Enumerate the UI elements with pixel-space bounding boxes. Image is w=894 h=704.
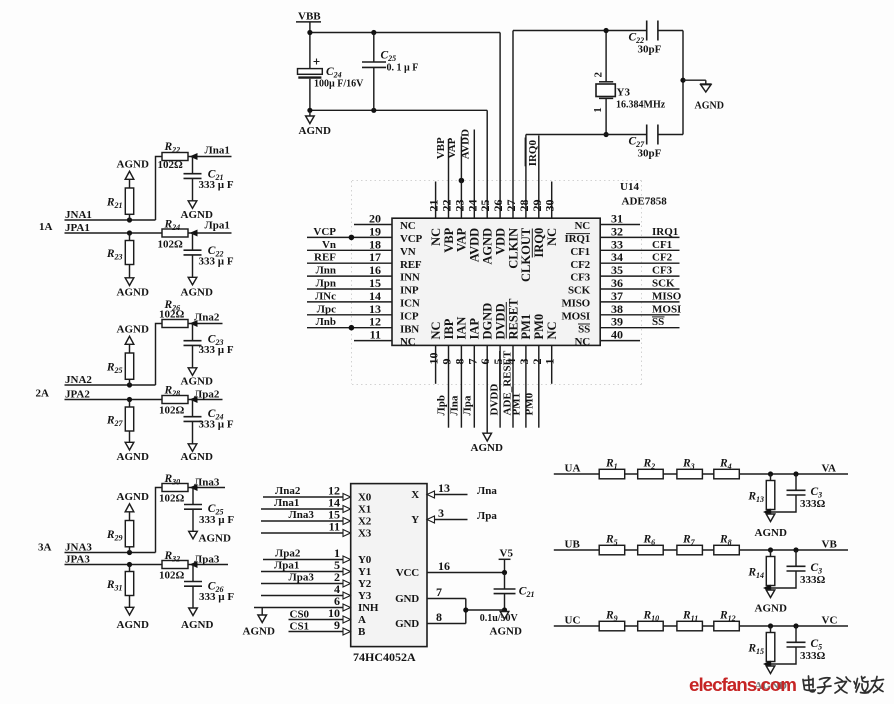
svg-text:2: 2 <box>593 72 605 78</box>
svg-text:GND: GND <box>395 618 419 630</box>
pin 33 CF1 <box>570 237 679 258</box>
svg-text:34: 34 <box>611 250 623 264</box>
pin X0 12 <box>263 484 372 504</box>
svg-text:3: 3 <box>438 506 444 520</box>
svg-text:PM0: PM0 <box>532 314 546 340</box>
svg-text:Лpa2: Лpa2 <box>194 388 220 400</box>
svg-text:100µ F/16V: 100µ F/16V <box>314 79 364 90</box>
svg-text:Лpa2: Лpa2 <box>275 548 301 560</box>
wire JNA3 <box>65 488 163 553</box>
resistor R13 <box>747 474 774 514</box>
svg-text:11: 11 <box>370 328 381 342</box>
resistor R4 <box>714 458 740 479</box>
capacitor C22 30pF <box>629 21 684 56</box>
pin 9 IBP <box>436 318 456 427</box>
pin 26 VDD <box>491 33 507 255</box>
svg-text:7: 7 <box>436 585 442 599</box>
svg-text:AVDD: AVDD <box>460 129 472 159</box>
pin 27 CLKIN <box>504 31 520 269</box>
svg-text:Y3: Y3 <box>617 87 631 99</box>
svg-text:Лpa1: Лpa1 <box>205 220 230 232</box>
svg-text:VBB: VBB <box>298 11 321 23</box>
node JNA2-R25 junction <box>127 382 132 387</box>
node UB-C3 junction <box>793 547 798 552</box>
svg-text:JPA1: JPA1 <box>65 222 90 234</box>
node Jpa3 junction arrow <box>190 561 198 568</box>
svg-text:22: 22 <box>440 200 454 212</box>
svg-text:Vn: Vn <box>322 239 336 251</box>
svg-text:IAN: IAN <box>455 317 469 340</box>
node R13-C3a junction arrow <box>763 509 771 516</box>
svg-text:INP: INP <box>400 285 419 297</box>
resistor R28 102ohm <box>159 385 188 417</box>
pin 34 CF2 <box>570 250 679 271</box>
pin 14 ICN <box>307 289 420 310</box>
resistor R29 <box>106 512 134 553</box>
wire UC line <box>554 625 848 627</box>
wire Jpa1 <box>188 232 232 234</box>
svg-text:24: 24 <box>465 200 479 212</box>
svg-text:NC: NC <box>429 228 443 246</box>
svg-text:V5: V5 <box>500 548 514 560</box>
svg-text:21: 21 <box>427 200 441 212</box>
svg-text:AGND: AGND <box>181 619 213 631</box>
ground AGND below C23 <box>181 368 213 388</box>
wire AGND rail to AGND pin25 <box>310 109 487 111</box>
node crystal-AGND junction <box>680 78 685 83</box>
svg-text:6: 6 <box>478 359 492 365</box>
svg-text:1: 1 <box>543 359 557 365</box>
svg-text:B: B <box>358 626 366 638</box>
svg-text:NC: NC <box>400 336 416 348</box>
svg-text:AGND: AGND <box>299 125 331 137</box>
resistor R14 <box>747 550 774 590</box>
svg-text:16: 16 <box>438 559 450 573</box>
pin 25 AGND <box>478 110 494 264</box>
resistor R3 <box>677 458 703 479</box>
node VBB-C25 junction <box>371 30 376 35</box>
pin 17 REF <box>307 250 422 271</box>
svg-text:AGND: AGND <box>117 287 149 299</box>
svg-text:Y3: Y3 <box>358 590 372 602</box>
svg-text:elecfans.com: elecfans.com <box>689 674 796 695</box>
node UB-R14 junction <box>768 547 773 552</box>
resistor R27 <box>106 400 134 443</box>
svg-text:JNA3: JNA3 <box>65 541 92 553</box>
svg-text:SS: SS <box>578 323 590 335</box>
svg-text:Лna1: Лna1 <box>205 144 230 156</box>
pin 20 NC <box>354 212 416 233</box>
wire Jna3 <box>188 487 225 489</box>
svg-text:CF1: CF1 <box>570 246 590 258</box>
power symbol VBB <box>296 11 321 69</box>
pin 28 CLKOUT <box>517 135 533 282</box>
capacitor C3a 333ohm <box>771 474 826 512</box>
pin A 10 CS0 <box>289 606 367 626</box>
pin 8 IAN <box>448 317 468 428</box>
svg-text:Лpa: Лpa <box>461 395 473 415</box>
svg-text:JPA3: JPA3 <box>65 553 90 565</box>
resistor R11 <box>677 610 703 631</box>
svg-text:333 µ F: 333 µ F <box>199 256 234 268</box>
svg-text:DVDD: DVDD <box>489 384 501 416</box>
capacitor C22 333uF <box>184 233 234 277</box>
pin 29 IRQ0 <box>525 136 546 258</box>
pin Y 3 output <box>411 506 497 526</box>
svg-text:1: 1 <box>592 107 604 113</box>
resistor R12 <box>714 610 740 631</box>
ground AGND under pin6 <box>471 433 503 454</box>
svg-text:333 µ F: 333 µ F <box>199 419 234 431</box>
svg-text:Y: Y <box>411 514 419 526</box>
svg-text:Лpc: Лpc <box>317 303 336 315</box>
svg-text:102Ω: 102Ω <box>159 308 185 320</box>
svg-text:VAP: VAP <box>446 137 458 158</box>
svg-text:NC: NC <box>575 336 591 348</box>
pin X2 15 <box>261 508 372 528</box>
svg-text:UA: UA <box>565 463 581 475</box>
node UC-C5 junction <box>793 623 798 628</box>
node rail-C24 junction <box>307 108 312 113</box>
svg-text:8: 8 <box>436 610 442 624</box>
pin 40 NC right <box>575 328 641 349</box>
node Jpa1 junction arrow <box>190 230 198 237</box>
svg-text:Лna3: Лna3 <box>289 509 315 521</box>
svg-text:VB: VB <box>822 539 838 551</box>
node Jna2 junction arrow <box>190 320 198 327</box>
wire JNA1 <box>65 157 163 221</box>
node C21b bottom junction <box>502 607 507 612</box>
node R14-C3b junction arrow <box>763 585 771 592</box>
resistor R10 <box>638 610 664 631</box>
svg-text:CF3: CF3 <box>570 272 590 284</box>
svg-text:ЛNc: ЛNc <box>315 290 336 302</box>
wire Jna2 <box>188 323 223 325</box>
svg-text:Y0: Y0 <box>358 554 372 566</box>
svg-text:38: 38 <box>611 302 623 316</box>
pin Y0 1 <box>263 546 372 566</box>
wire GND tie <box>466 599 505 624</box>
svg-text:MISO: MISO <box>652 290 682 302</box>
node UA-R13 junction <box>768 471 773 476</box>
svg-text:37: 37 <box>611 289 623 303</box>
wire JPA2 <box>65 399 163 401</box>
svg-text:PM1: PM1 <box>519 314 533 340</box>
svg-text:VCP: VCP <box>400 233 422 245</box>
node UA-C3 junction <box>793 471 798 476</box>
svg-text:IRQ0: IRQ0 <box>532 228 546 258</box>
svg-text:35: 35 <box>611 263 623 277</box>
capacitor C24b 333uF <box>184 400 234 444</box>
svg-text:Лna: Лna <box>477 485 497 497</box>
svg-text:Y1: Y1 <box>358 566 371 578</box>
svg-text:X0: X0 <box>358 492 372 504</box>
pin 37 MISO <box>561 289 681 310</box>
svg-text:CF2: CF2 <box>570 259 590 271</box>
wire to AGND <box>683 80 706 84</box>
svg-text:102Ω: 102Ω <box>158 239 184 251</box>
logo chinese characters 电子发烧友 <box>803 676 884 693</box>
node Jpa2 junction arrow <box>190 396 198 403</box>
svg-text:9: 9 <box>440 359 454 365</box>
op-amp U2 74HC4052A body <box>351 484 427 647</box>
svg-text:18: 18 <box>369 237 381 251</box>
pin B 9 CS1 <box>289 618 367 638</box>
svg-text:JNA1: JNA1 <box>65 209 92 221</box>
svg-text:Лna: Лna <box>448 395 460 415</box>
pin 10 NC bottom <box>427 321 443 383</box>
pin 4 RESET <box>500 298 521 428</box>
ground AGND below C21b <box>490 612 522 638</box>
svg-text:X3: X3 <box>358 528 372 540</box>
svg-text:SCK: SCK <box>652 278 675 290</box>
svg-text:Y2: Y2 <box>358 578 372 590</box>
svg-text:Лna3: Лna3 <box>194 477 220 489</box>
resistor R8 <box>714 534 740 555</box>
svg-text:102Ω: 102Ω <box>159 405 185 417</box>
svg-text:29: 29 <box>530 200 544 212</box>
node JNA1-R21 junction <box>127 217 132 222</box>
svg-text:SCK: SCK <box>568 285 591 297</box>
wire Jpa2 <box>188 399 223 401</box>
op-amp U14 body <box>392 218 600 345</box>
svg-text:IRQ1: IRQ1 <box>652 226 678 238</box>
resistor R23 <box>106 233 134 278</box>
svg-text:AGND: AGND <box>471 442 503 454</box>
svg-text:Лpa3: Лpa3 <box>194 553 220 565</box>
ground AGND below C26 <box>181 608 213 631</box>
svg-text:Лnn: Лnn <box>316 265 336 277</box>
pin 22 VBP <box>435 137 456 253</box>
capacitor C21b 0.1u/50V <box>480 573 535 625</box>
resistor R15 <box>747 626 774 666</box>
svg-text:Лpa3: Лpa3 <box>289 572 315 584</box>
svg-text:AGND: AGND <box>117 451 149 463</box>
svg-text:REF: REF <box>314 252 336 264</box>
svg-text:333 µ F: 333 µ F <box>199 591 234 603</box>
svg-text:333Ω: 333Ω <box>800 574 826 586</box>
ground AGND below R27 <box>117 442 149 463</box>
svg-text:39: 39 <box>611 315 623 329</box>
pin X1 14 <box>261 496 371 516</box>
resistor R24 102ohm <box>158 218 189 250</box>
svg-text:IBP: IBP <box>442 318 456 339</box>
node Jna1 junction arrow <box>190 153 198 160</box>
svg-text:VAP: VAP <box>455 227 469 251</box>
pin 32 IRQ1 <box>565 224 680 245</box>
ground AGND right of crystal <box>695 84 724 112</box>
resistor R26 102ohm <box>159 299 188 328</box>
ground AGND above R21 <box>117 159 149 180</box>
svg-text:CF2: CF2 <box>652 252 673 264</box>
crystal Y3 16.384MHz <box>592 28 666 137</box>
pin 7 IAP <box>461 318 481 428</box>
svg-text:30: 30 <box>543 200 557 212</box>
pin 23 VAP <box>446 137 469 252</box>
svg-text:102Ω: 102Ω <box>158 159 184 171</box>
svg-text:AGND: AGND <box>117 324 149 336</box>
pin 19 VCP <box>307 224 422 245</box>
svg-text:Лpb: Лpb <box>436 395 448 415</box>
ground AGND below R14 <box>755 590 787 615</box>
svg-text:JNA2: JNA2 <box>65 374 92 386</box>
svg-text:Лpn: Лpn <box>316 278 336 290</box>
svg-text:20: 20 <box>369 212 381 226</box>
node JPA3-R31 junction <box>127 562 132 567</box>
pin 1 NC bottom <box>543 321 559 383</box>
capacitor C27 30pF <box>629 125 684 160</box>
svg-text:31: 31 <box>611 212 623 226</box>
ground AGND above R25 <box>117 324 149 345</box>
wire crystal right rail <box>682 31 684 135</box>
pin Y2 2 <box>261 570 372 590</box>
svg-text:40: 40 <box>611 328 623 342</box>
node VBB-C24 junction <box>307 30 312 35</box>
wire crystal top rail to CLKIN pin27 <box>513 30 647 32</box>
svg-text:8: 8 <box>452 359 466 365</box>
svg-text:NC: NC <box>400 220 416 232</box>
svg-text:VCC: VCC <box>396 567 419 579</box>
svg-text:333 µ F: 333 µ F <box>199 514 234 526</box>
node GND tie junction <box>463 607 468 612</box>
svg-text:CF1: CF1 <box>652 239 672 251</box>
wire JPA1 <box>65 232 163 234</box>
svg-text:CF3: CF3 <box>652 265 673 277</box>
svg-text:GND: GND <box>395 593 419 605</box>
svg-text:ICP: ICP <box>400 310 419 322</box>
pin 18 VN <box>307 237 416 258</box>
ground AGND below R23 <box>117 278 149 299</box>
svg-text:Лna2: Лna2 <box>275 485 301 497</box>
svg-text:13: 13 <box>369 302 381 316</box>
node dot on VAP wire <box>459 178 465 184</box>
svg-text:AGND: AGND <box>117 491 149 503</box>
node rail-C25 junction <box>371 108 376 113</box>
svg-text:DVDD: DVDD <box>493 303 507 339</box>
svg-text:INH: INH <box>358 602 379 614</box>
svg-text:PM1: PM1 <box>511 393 523 416</box>
resistor R32 102ohm <box>159 550 188 582</box>
pin 2 PM0 <box>523 314 546 428</box>
svg-text:9: 9 <box>334 618 340 632</box>
pin X 13 output <box>411 481 497 501</box>
svg-text:CS1: CS1 <box>290 621 310 633</box>
wire UB line <box>554 549 848 551</box>
resistor R7 <box>677 534 703 555</box>
node 3A labels <box>38 541 92 565</box>
svg-text:VN: VN <box>400 246 416 258</box>
svg-text:10: 10 <box>427 353 441 365</box>
wire crystal bottom rail to CLKOUT pin28 <box>526 134 647 136</box>
svg-text:102Ω: 102Ω <box>159 570 185 582</box>
svg-text:PM0: PM0 <box>523 392 535 415</box>
svg-text:AGND: AGND <box>755 603 787 615</box>
svg-text:VDD: VDD <box>493 228 507 255</box>
wire JNA2 <box>65 324 163 386</box>
pin INH 6 <box>254 594 379 614</box>
capacitor C24 100uF/16V electrolytic <box>298 59 365 111</box>
pin 16 INN <box>307 263 420 284</box>
pin 39 SS <box>578 315 680 336</box>
svg-text:IRQ1: IRQ1 <box>565 233 590 245</box>
svg-text:VC: VC <box>822 615 838 627</box>
resistor R22 102ohm <box>158 141 189 171</box>
svg-text:2A: 2A <box>36 388 50 400</box>
svg-text:AGND: AGND <box>481 228 495 265</box>
svg-text:AGND: AGND <box>181 287 213 299</box>
svg-text:AGND: AGND <box>199 533 231 545</box>
svg-text:AGND: AGND <box>117 159 149 171</box>
svg-text:NC: NC <box>545 321 559 339</box>
svg-text:7: 7 <box>465 359 479 365</box>
svg-text:RESET: RESET <box>506 298 520 340</box>
svg-text:1A: 1A <box>39 221 53 233</box>
node JPA1-R23 junction <box>127 230 132 235</box>
wire UA line <box>554 473 848 475</box>
capacitor C5 333ohm <box>771 626 826 664</box>
pin 5 DVDD <box>489 303 508 427</box>
ground AGND below R31 <box>117 607 149 631</box>
svg-text:NC: NC <box>429 321 443 339</box>
svg-text:Лpa1: Лpa1 <box>274 560 299 572</box>
svg-text:AGND: AGND <box>181 375 213 387</box>
svg-text:13: 13 <box>438 481 450 495</box>
wire Jna1 <box>188 156 232 158</box>
svg-text:0.1u/50V: 0.1u/50V <box>480 613 519 624</box>
ground AGND below C24 <box>299 110 331 137</box>
svg-text:X2: X2 <box>358 516 372 528</box>
svg-text:IRQ0: IRQ0 <box>527 140 539 167</box>
node JNA3-R29 junction <box>127 550 132 555</box>
svg-text:MOSI: MOSI <box>652 303 681 315</box>
node 1A labels <box>39 209 92 234</box>
svg-text:CLKIN: CLKIN <box>506 228 520 269</box>
wire VBB rail to VDD pin26 <box>310 32 500 34</box>
power symbol V5 <box>499 548 514 573</box>
resistor R31 <box>106 565 134 608</box>
svg-text:X: X <box>411 489 419 501</box>
resistor R30 102ohm <box>159 473 188 505</box>
wire Jpa3 <box>188 564 228 566</box>
pin 3 PM1 <box>511 314 534 428</box>
svg-text:VA: VA <box>822 463 837 475</box>
svg-text:VBP: VBP <box>442 227 456 252</box>
svg-text:102Ω: 102Ω <box>159 493 185 505</box>
svg-text:U14: U14 <box>620 181 639 193</box>
ground AGND below R15 <box>755 666 787 692</box>
pin GND 7 <box>395 585 466 605</box>
svg-text:23: 23 <box>452 200 466 212</box>
node 2A labels <box>36 374 93 401</box>
svg-text:333 µ F: 333 µ F <box>199 344 234 356</box>
pin X3 11 <box>261 520 372 540</box>
svg-text:VCP: VCP <box>313 226 336 238</box>
pin 35 CF3 <box>570 263 679 284</box>
svg-text:17: 17 <box>369 250 381 264</box>
svg-text:AGND: AGND <box>490 626 522 638</box>
node VCC junction <box>502 570 507 575</box>
svg-text:SS: SS <box>652 316 664 328</box>
wire JPA3 <box>65 564 163 566</box>
svg-text:30pF: 30pF <box>638 44 662 56</box>
svg-text:19: 19 <box>369 224 381 238</box>
svg-text:NC: NC <box>545 228 559 246</box>
svg-text:Лna2: Лna2 <box>194 312 220 324</box>
svg-text:333Ω: 333Ω <box>800 498 826 510</box>
resistor R21 <box>106 179 134 220</box>
svg-text:11: 11 <box>329 520 340 534</box>
svg-text:25: 25 <box>478 200 492 212</box>
